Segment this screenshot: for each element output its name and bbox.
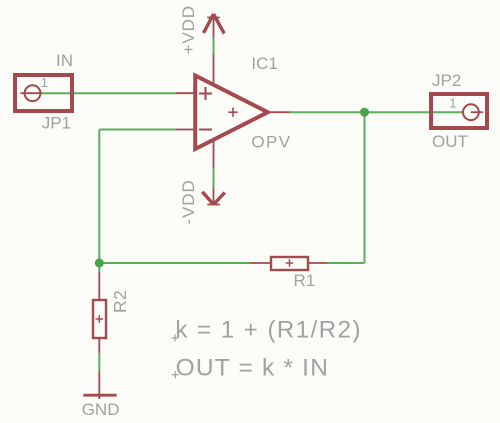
net name OUT — [432, 132, 468, 151]
supply symbol +VDD arrow — [204, 14, 225, 38]
svg-text:-VDD: -VDD — [179, 179, 198, 224]
svg-text:OUT: OUT — [432, 132, 468, 151]
pin 1 label of JP1 — [41, 75, 48, 90]
name R2 — [110, 290, 130, 313]
svg-text:IC1: IC1 — [251, 54, 277, 73]
svg-text:JP1: JP1 — [42, 114, 71, 133]
name IC1 — [251, 54, 277, 73]
op-amp center plus mark — [228, 108, 237, 117]
ground symbol — [83, 372, 116, 399]
op-amp -input pin stub — [176, 129, 196, 131]
connector JP2 — [431, 94, 487, 128]
svg-text:R2: R2 — [110, 290, 130, 313]
label -VDD — [179, 179, 198, 224]
op-amp minus mark — [199, 129, 212, 131]
label GND — [82, 400, 120, 419]
junction node feedback/R2/R1 — [95, 259, 104, 268]
svg-text:GND: GND — [82, 400, 120, 419]
op-amp power pin bottom (into triangle) — [213, 141, 215, 168]
wire net IN: JP1 pin to op-amp +input — [42, 92, 176, 94]
origin cross 2 — [172, 371, 179, 378]
op-amp +input pin stub — [176, 92, 196, 94]
svg-text:+VDD: +VDD — [179, 5, 198, 54]
wire feedback horizontal: -input to left vertical — [99, 129, 176, 131]
wire feedback vertical left — [98, 130, 100, 264]
wire R1 right to vertical riser — [327, 262, 365, 264]
label +VDD — [179, 5, 198, 54]
svg-text:k = 1 + (R1/R2): k = 1 + (R1/R2) — [175, 316, 362, 343]
connector JP1 — [15, 75, 72, 111]
formula line 2 — [176, 354, 330, 381]
origin cross 1 — [172, 335, 179, 342]
op-amp power pin top (into triangle) — [213, 55, 215, 84]
value OPV — [251, 133, 291, 152]
resistor R2 — [93, 272, 106, 353]
pin 1 label of JP2 — [449, 95, 456, 110]
op-amp plus mark — [199, 87, 212, 100]
net name IN — [56, 51, 73, 70]
wire -VDD net segment — [213, 168, 215, 187]
name JP2 — [432, 71, 461, 90]
resistor R1 — [251, 257, 328, 270]
svg-text:JP2: JP2 — [432, 71, 461, 90]
svg-text:1: 1 — [41, 75, 48, 90]
op-amp output pin stub — [271, 111, 290, 113]
svg-text:IN: IN — [56, 51, 73, 70]
wire +VDD net segment — [213, 38, 215, 55]
name JP1 — [42, 114, 71, 133]
wire bottom horizontal: junction to R1 left — [99, 262, 250, 264]
supply symbol -VDD arrow — [202, 187, 225, 205]
svg-text:OUT = k * IN: OUT = k * IN — [176, 354, 330, 381]
op-amp IC1 triangle — [195, 76, 268, 150]
wire OUT net: op-amp output to JP2 — [290, 111, 464, 113]
junction node output/riser — [360, 108, 369, 117]
wire R2 top (junction to R2) — [98, 263, 100, 272]
svg-text:1: 1 — [449, 95, 456, 110]
svg-text:R1: R1 — [294, 271, 316, 290]
wire R2 bottom to GND — [98, 353, 100, 372]
svg-text:OPV: OPV — [251, 133, 291, 152]
wire vertical riser to output net — [364, 112, 366, 263]
name R1 — [294, 271, 316, 290]
formula line 1 — [175, 316, 362, 343]
